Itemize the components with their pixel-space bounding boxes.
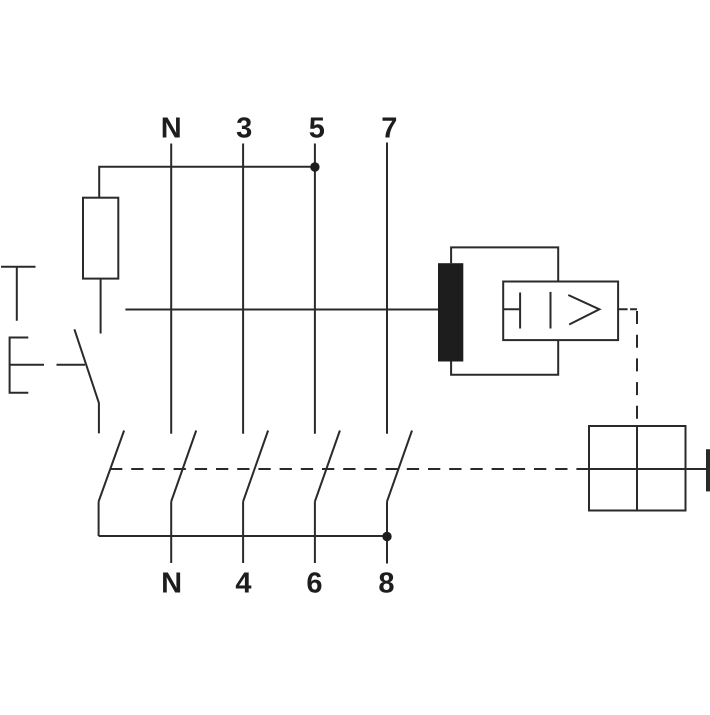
pole 5/6 blade xyxy=(315,431,340,502)
dashed link relay to mechanism vertical xyxy=(636,311,638,426)
junction dot on line 5 xyxy=(310,162,319,171)
resistor (test resistor) xyxy=(83,198,118,279)
bottom bus wire xyxy=(99,535,387,537)
test button actuator T xyxy=(1,267,36,321)
CT core black bar xyxy=(438,263,463,361)
pole 3/4 lower wire xyxy=(242,502,244,564)
test pole blade xyxy=(99,431,125,502)
relay symbol plate bar 1 xyxy=(519,293,521,329)
test switch blade xyxy=(74,329,99,433)
svg-text:6: 6 xyxy=(306,567,322,599)
pole line 3 vertical xyxy=(242,144,244,434)
svg-text:3: 3 xyxy=(236,113,252,145)
wire top bus from resistor to line 5 xyxy=(99,167,315,198)
mechanism box xyxy=(589,426,686,511)
pole N lower wire xyxy=(170,502,172,564)
junction dot bottom line 8 xyxy=(382,532,391,541)
wire resistor bottom lead xyxy=(100,279,102,334)
pole 7/8 lower wire xyxy=(386,502,388,564)
test pole lower wire to bus corner xyxy=(98,502,100,537)
dashed link relay to mechanism horizontal xyxy=(618,308,637,310)
svg-text:4: 4 xyxy=(235,567,251,599)
svg-text:N: N xyxy=(161,567,182,599)
trip relay box xyxy=(503,282,618,341)
pole line 5 vertical xyxy=(314,144,316,434)
svg-text:8: 8 xyxy=(378,567,394,599)
handle bar xyxy=(706,449,710,491)
relay symbol input lead xyxy=(503,308,520,310)
svg-text:5: 5 xyxy=(309,113,325,145)
svg-text:7: 7 xyxy=(381,113,397,145)
mechanism cross horizontal xyxy=(589,468,686,470)
pole 3/4 blade xyxy=(243,431,268,502)
svg-text:N: N xyxy=(161,113,182,145)
pole line N vertical xyxy=(170,144,172,434)
relay symbol plate bar 2 xyxy=(550,292,552,329)
mechanical link dashes (button to blade) xyxy=(10,364,85,366)
test button bracket xyxy=(10,338,29,393)
CT secondary loop bottom wire xyxy=(451,340,558,375)
pole 7/8 blade xyxy=(387,431,412,502)
mechanism cross vertical xyxy=(636,426,638,511)
CT secondary loop top wire xyxy=(451,247,558,281)
pole 5/6 lower wire xyxy=(314,502,316,564)
handle lead wire xyxy=(686,468,707,470)
trip bar dashed line xyxy=(110,468,589,470)
relay symbol chevron xyxy=(568,295,599,325)
pole line 7 vertical xyxy=(386,143,388,434)
wire middle primary through CT xyxy=(125,309,438,311)
pole N blade xyxy=(171,431,196,502)
